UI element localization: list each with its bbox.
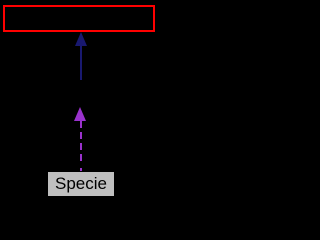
node: intermediate class (invisible: black text on black) xyxy=(30,84,130,104)
dash 1 xyxy=(80,121,82,128)
shaft xyxy=(80,44,82,80)
dash 2 xyxy=(80,132,82,139)
node: Specie (current class, gray fill) xyxy=(48,172,114,196)
arrowhead xyxy=(75,32,87,46)
dash 4 xyxy=(80,154,82,161)
node: truncated class box (red border, top) xyxy=(3,5,155,32)
dash 5 (clipped at node) xyxy=(80,168,82,171)
arrowhead xyxy=(74,107,86,121)
dash 3 xyxy=(80,143,82,150)
